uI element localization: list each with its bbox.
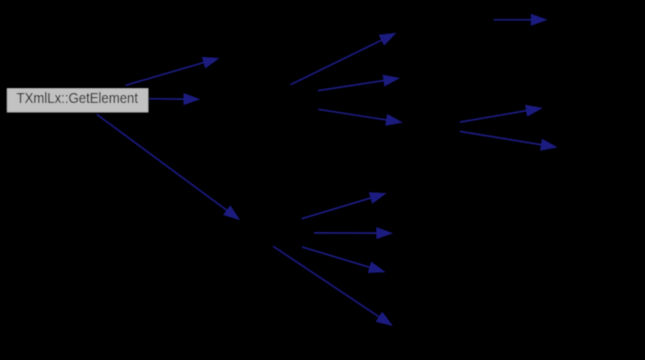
- svg-text:TXmlLx::GetElement: TXmlLx::GetElement: [17, 90, 139, 107]
